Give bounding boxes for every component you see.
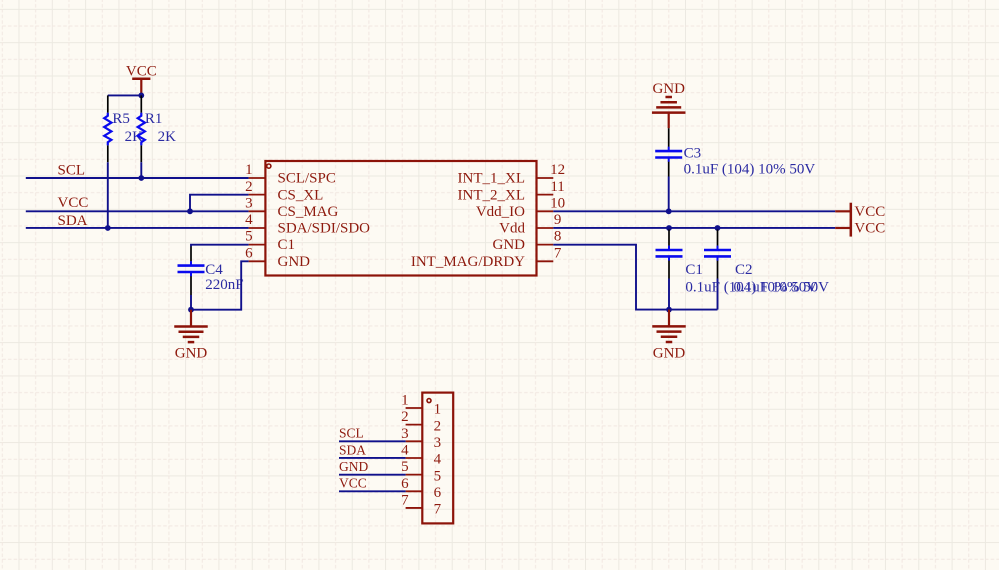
wire net VCC	[26, 210, 249, 212]
U1 pin 12 (INT_1_XL)	[458, 162, 566, 187]
svg-text:SCL/SPC: SCL/SPC	[278, 171, 336, 187]
svg-text:INT_MAG/DRDY: INT_MAG/DRDY	[411, 254, 525, 270]
svg-text:VCC: VCC	[339, 476, 367, 491]
wire VCC junction to R5 top	[108, 94, 142, 96]
wire C2 bottom to ground rail	[717, 279, 719, 310]
U1 pin 5 (C1)	[245, 229, 295, 254]
wire net VCC to J1 pin 6	[339, 490, 406, 492]
svg-text:C1: C1	[685, 262, 703, 278]
svg-text:INT_2_XL: INT_2_XL	[458, 187, 526, 203]
svg-text:GND: GND	[175, 346, 208, 362]
svg-text:2: 2	[401, 409, 409, 425]
junction ground rail	[666, 307, 672, 313]
svg-text:R1: R1	[145, 111, 163, 127]
U1 pin 3 (CS_MAG)	[245, 195, 338, 220]
junction R1/SCL	[138, 175, 144, 181]
svg-text:7: 7	[401, 492, 409, 508]
svg-text:VCC: VCC	[854, 204, 885, 220]
svg-text:C3: C3	[684, 146, 702, 162]
wire net SCL to J1 pin 3	[339, 440, 406, 442]
U1 pin 10 (Vdd_IO)	[476, 195, 565, 220]
svg-text:9: 9	[554, 212, 562, 228]
wire pin 5 to C4	[191, 245, 249, 247]
J1 pin 6	[401, 476, 442, 501]
U1 pin 11 (INT_2_XL)	[458, 179, 565, 204]
svg-text:GND: GND	[493, 237, 526, 253]
svg-text:SDA: SDA	[58, 213, 88, 229]
capacitor C2	[704, 229, 731, 278]
svg-text:CS_XL: CS_XL	[278, 187, 324, 203]
svg-text:Vdd: Vdd	[499, 221, 525, 237]
svg-text:R5: R5	[112, 111, 130, 127]
svg-text:GND: GND	[339, 459, 368, 474]
ground symbol GND (top right, inverted)	[652, 81, 686, 128]
IC U1 body	[265, 161, 536, 276]
wire net SCL	[26, 177, 249, 179]
svg-text:7: 7	[554, 245, 562, 261]
svg-text:CS_MAG: CS_MAG	[278, 204, 339, 220]
svg-text:VCC: VCC	[126, 63, 157, 79]
svg-text:8: 8	[554, 229, 562, 245]
J1 pin 7	[401, 492, 442, 517]
svg-text:6: 6	[245, 245, 253, 261]
svg-text:220nF: 220nF	[205, 277, 243, 293]
svg-text:SCL: SCL	[58, 163, 86, 179]
svg-text:7: 7	[434, 502, 442, 518]
U1 pin 8 (GND)	[493, 229, 562, 254]
junction VCC/R5/R1	[138, 93, 144, 99]
svg-text:0.1uF (104) 10% 50V: 0.1uF (104) 10% 50V	[684, 162, 816, 178]
wire VCC branch to CS_XL pin 2	[190, 195, 249, 212]
J1 pin 4	[401, 442, 442, 467]
svg-text:5: 5	[434, 468, 442, 484]
power port VCC (upper right)	[835, 203, 885, 220]
wire ground rail to pin 6	[191, 261, 249, 309]
U1 pin 9 (Vdd)	[499, 212, 561, 237]
power port VCC (lower right)	[835, 219, 885, 236]
U1 pin 6 (GND)	[245, 245, 310, 270]
svg-text:3: 3	[245, 195, 253, 211]
svg-text:2: 2	[434, 418, 442, 434]
capacitor C3	[655, 128, 682, 176]
svg-text:6: 6	[434, 485, 442, 501]
svg-text:3: 3	[434, 435, 442, 451]
svg-text:2K: 2K	[158, 129, 177, 145]
wire R1 bottom to SCL	[140, 162, 142, 178]
svg-text:11: 11	[550, 179, 564, 195]
connector J1 pin-1 marker circle	[427, 399, 431, 403]
wire net Vdd (pin 9)	[553, 227, 835, 229]
svg-text:VCC: VCC	[854, 221, 885, 237]
wire C1 bottom to ground rail	[668, 279, 670, 310]
junction C1/Vdd	[666, 225, 672, 231]
J1 pin 1	[401, 393, 441, 418]
wire ground rail under C1/C2	[669, 309, 718, 311]
power port VCC (top left)	[126, 63, 157, 95]
J1 pin 5	[401, 459, 441, 484]
svg-text:INT_1_XL: INT_1_XL	[458, 171, 526, 187]
svg-text:SDA/SDI/SDO: SDA/SDI/SDO	[278, 221, 371, 237]
svg-text:4: 4	[434, 452, 442, 468]
svg-text:2: 2	[245, 179, 253, 195]
capacitor C1	[656, 229, 683, 278]
svg-text:4: 4	[401, 442, 409, 458]
IC U1 pin-1 marker circle	[267, 164, 271, 168]
svg-text:1: 1	[245, 162, 253, 178]
svg-text:10: 10	[550, 195, 565, 211]
junction C4/GND	[188, 307, 194, 313]
wire net SDA	[26, 227, 249, 229]
U1 pin 2 (CS_XL)	[245, 179, 323, 204]
svg-text:GND: GND	[653, 346, 686, 362]
resistor R1	[138, 95, 145, 162]
U1 pin 7 (INT_MAG/DRDY)	[411, 245, 562, 270]
connector J1 body	[422, 393, 453, 524]
junction C3/Vdd_IO	[666, 208, 672, 214]
svg-text:C2: C2	[735, 262, 753, 278]
wire net Vdd_IO (pin 10)	[553, 210, 835, 212]
svg-text:Vdd_IO: Vdd_IO	[476, 204, 525, 220]
ground symbol GND (left)	[174, 310, 208, 362]
svg-text:1: 1	[434, 402, 442, 418]
U1 pin 1 (SCL/SPC)	[245, 162, 336, 187]
svg-text:C4: C4	[205, 262, 223, 278]
junction C2/Vdd	[715, 225, 721, 231]
svg-text:3: 3	[401, 426, 409, 442]
svg-text:5: 5	[245, 229, 253, 245]
wire R5 bottom to SDA	[107, 162, 109, 228]
svg-text:SCL: SCL	[339, 426, 364, 441]
ground symbol GND (bottom right)	[652, 310, 686, 362]
svg-text:C1: C1	[278, 237, 296, 253]
J1 pin 3	[401, 426, 441, 451]
svg-text:VCC: VCC	[58, 195, 89, 211]
svg-text:1: 1	[401, 393, 409, 409]
svg-text:5: 5	[401, 459, 409, 475]
svg-text:GND: GND	[278, 254, 311, 270]
wire net SDA to J1 pin 4	[339, 457, 406, 459]
wire C4 bottom to ground rail	[190, 295, 192, 310]
junction R5/SDA	[105, 225, 111, 231]
J1 pin 2	[401, 409, 441, 434]
svg-text:GND: GND	[652, 81, 685, 97]
wire C3 to Vdd_IO net	[668, 177, 670, 212]
svg-text:SDA: SDA	[339, 442, 366, 457]
resistor R5	[104, 95, 111, 162]
wire pin 8 GND down to ground rail	[553, 245, 669, 310]
junction VCC branch to pin 2	[187, 208, 193, 214]
svg-text:12: 12	[550, 162, 565, 178]
svg-text:6: 6	[401, 476, 409, 492]
wire net GND to J1 pin 5	[339, 474, 406, 476]
U1 pin 4 (SDA/SDI/SDO)	[245, 212, 370, 237]
svg-text:0.1uF 10% 50V: 0.1uF 10% 50V	[734, 279, 830, 295]
capacitor C4	[178, 247, 205, 296]
svg-text:4: 4	[245, 212, 253, 228]
